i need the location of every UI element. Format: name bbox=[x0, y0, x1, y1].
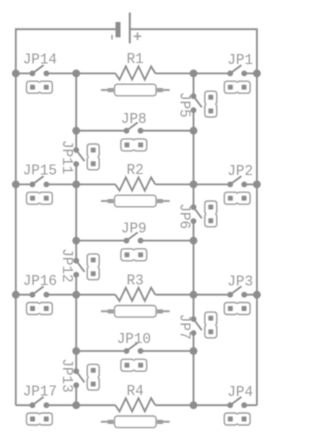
svg-text:JP1: JP1 bbox=[227, 53, 253, 69]
svg-text:R2: R2 bbox=[127, 163, 144, 179]
svg-text:R3: R3 bbox=[127, 274, 144, 290]
svg-text:JP7: JP7 bbox=[176, 314, 192, 340]
svg-text:JP8: JP8 bbox=[121, 112, 147, 128]
svg-text:JP13: JP13 bbox=[58, 358, 74, 392]
svg-text:JP9: JP9 bbox=[121, 222, 147, 238]
svg-text:JP12: JP12 bbox=[58, 248, 74, 282]
svg-text:JP15: JP15 bbox=[23, 164, 57, 180]
svg-text:JP11: JP11 bbox=[58, 140, 74, 174]
svg-text:R4: R4 bbox=[127, 384, 144, 400]
svg-text:JP16: JP16 bbox=[23, 274, 57, 290]
svg-text:JP2: JP2 bbox=[227, 164, 253, 180]
svg-text:JP3: JP3 bbox=[227, 275, 253, 291]
svg-text:JP10: JP10 bbox=[117, 332, 151, 348]
svg-text:JP6: JP6 bbox=[176, 203, 192, 229]
svg-text:JP4: JP4 bbox=[227, 385, 253, 401]
svg-text:R1: R1 bbox=[127, 52, 144, 68]
svg-text:JP5: JP5 bbox=[176, 92, 192, 118]
svg-text:JP14: JP14 bbox=[23, 53, 57, 69]
svg-text:JP17: JP17 bbox=[23, 384, 57, 400]
